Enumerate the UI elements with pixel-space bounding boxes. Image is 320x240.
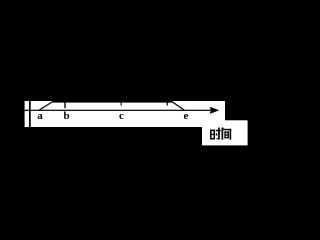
svg-text:c: c: [119, 110, 124, 122]
axis arrowhead: [210, 107, 220, 114]
falling segment of curve (to axis at e): [173, 102, 185, 110]
svg-text:e: e: [184, 110, 189, 122]
tick at b (hanging from top line): [64, 102, 65, 108]
caption 时 (shi) glyph drawn: [210, 128, 221, 140]
tick at c (hanging from top line): [121, 102, 122, 106]
white plot strip: [25, 101, 225, 127]
caption 间 (jian) glyph drawn: [222, 128, 232, 140]
svg-text:b: b: [63, 110, 69, 122]
svg-text:a: a: [37, 110, 43, 122]
tick at d (hanging from top line): [167, 101, 168, 105]
left boundary vertical line: [29, 101, 31, 127]
white label box for time caption: [202, 120, 248, 145]
flat top segment of curve: [52, 101, 173, 103]
time axis line: [25, 110, 217, 111]
rising segment of curve (a to top): [39, 102, 52, 110]
